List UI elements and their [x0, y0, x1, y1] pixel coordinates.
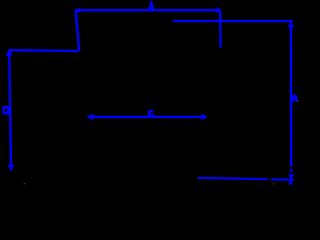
faint speck near bottom-left — [24, 183, 26, 184]
dimension line c (middle horizontal) — [88, 116, 207, 118]
arrowhead left of dimension a — [76, 7, 81, 13]
arrowhead right of dimension c — [202, 114, 208, 121]
dimension line b (left vertical) — [9, 50, 11, 171]
extension line from top-right corner — [219, 10, 222, 48]
label a (top, above dimension line) — [148, 1, 154, 9]
extension stub below bottom-right junction — [289, 181, 293, 185]
dimension line d (right vertical) — [290, 22, 293, 167]
lower right extension line continued after gap — [271, 178, 294, 181]
arrowhead bottom of dimension b — [8, 165, 15, 172]
faint speck below lower-right extension line — [273, 183, 275, 184]
extension line upper right (horizontal at y=21) — [173, 20, 293, 22]
label b (left of dimension line, bowl glyph) — [3, 106, 10, 115]
arrowhead top of dimension b — [6, 49, 13, 56]
arrowhead right of dimension a — [216, 7, 221, 13]
arrowhead left of dimension c — [87, 114, 93, 121]
extension line lower right (horizontal, slight slant, with gap) — [198, 178, 268, 179]
arrowhead top of dimension d — [288, 21, 294, 27]
short segment of dimension d below gap — [290, 169, 292, 173]
arrowhead bottom of dimension d — [288, 174, 294, 179]
extension line left step (horizontal at y=50) — [9, 49, 79, 52]
extension line from top-left corner (slanted) — [76, 10, 80, 51]
label d (right of dimension line, two-leg glyph) — [292, 95, 297, 102]
label c (above middle dimension line) — [148, 110, 154, 117]
dimension line a (top horizontal) — [77, 9, 221, 11]
faint light dot at right label corner — [297, 100, 298, 101]
